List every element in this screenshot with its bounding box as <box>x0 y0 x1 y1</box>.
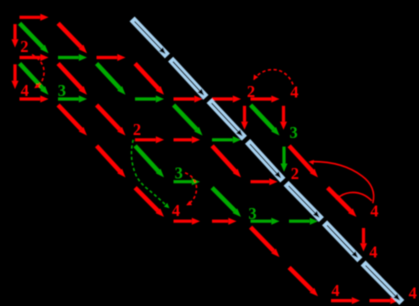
arc from label 2 row4 to label 4 row6 (dashed green) <box>131 140 169 209</box>
svg-text:4: 4 <box>370 201 378 220</box>
wire: red diagonal row7 col7-8 <box>289 267 318 296</box>
wire: red diagonal row4 col5-6 <box>212 146 241 178</box>
arc from label 4 to label 2 row3 (dashed red) <box>253 70 293 85</box>
wire: red arrow row3 col6-7 <box>251 96 280 103</box>
arc from label 4 row6 col9 to diagonal row5 (solid red) <box>336 192 372 200</box>
svg-text:3: 3 <box>248 204 256 223</box>
svg-text:2: 2 <box>247 82 255 101</box>
wire: green diagonal row5 col5-6 <box>212 188 241 217</box>
wire: red arrow row2 col2-3 <box>97 54 126 61</box>
svg-text:4: 4 <box>409 284 417 303</box>
wire: red diagonal row4 col2-3 <box>97 146 126 178</box>
wire: red diagonal row2 col3-4 <box>135 64 164 95</box>
wire: red vertical arrow col6 row3-4 <box>241 106 248 130</box>
svg-text:3: 3 <box>175 164 183 183</box>
svg-text:3: 3 <box>289 123 297 142</box>
wire: red arrow row5 col6-7 <box>251 178 278 185</box>
wire: red arrow row4 col3-4 <box>135 136 164 143</box>
wire: red diagonal row3 col2-3 <box>97 105 126 136</box>
blue diagonal arrow segment 3 <box>209 101 244 139</box>
arc from label 4 row6 col9 to diagonal row4 (solid red) <box>309 160 374 203</box>
wire: green arrow row2 col1-2 <box>58 54 87 61</box>
blue diagonal arrow segment 7 <box>363 263 402 302</box>
blue diagonal arrow segment 4 <box>248 141 283 180</box>
arc from label 3 row5 to label 4 row6 (dashed red) <box>185 173 197 206</box>
svg-text:3: 3 <box>58 81 66 100</box>
wire: green arrow row3 col3-4 <box>135 96 164 103</box>
wire: red diagonal row6 col6-7 <box>251 227 280 257</box>
wire: red arrow row3 col0-1 <box>20 96 49 103</box>
wire: green diagonal row3 col6-7 <box>251 105 280 136</box>
wire: red arrow row8 col9-10 <box>370 297 399 304</box>
wire: red vertical arrow col0 row2-3 <box>12 64 19 89</box>
wire: green diagonal row2 col2-3 <box>97 64 126 95</box>
blue diagonal arrow segment 5 <box>286 183 321 219</box>
svg-text:2: 2 <box>133 120 141 139</box>
wire: red arrow row2 col0-1 <box>20 54 49 61</box>
svg-text:4: 4 <box>369 242 377 261</box>
wire: red arrow row3 col4-5 <box>174 96 203 103</box>
wire: red diagonal row5 col8-9 <box>328 188 357 217</box>
wire: green vertical arrow col7 row4-5 <box>281 147 288 172</box>
wire: green diagonal row3 col4-5 <box>174 105 203 136</box>
wire: red arrow row6 col4-5 <box>174 218 201 225</box>
wire: red vertical arrow col7 row3-4 <box>280 106 287 130</box>
blue diagonal arrow segment 2 <box>171 59 206 97</box>
wire: green diagonal row1 col0-1 <box>20 23 49 53</box>
wire: red diagonal row3 col1-2 <box>58 105 87 136</box>
wire: red diagonal row2 col1-2 <box>58 64 87 95</box>
wire: green arrow row3 col1-2 <box>58 96 87 103</box>
wire: green arrow row5 col4-5 <box>174 178 201 185</box>
svg-text:4: 4 <box>290 83 298 102</box>
wire: green diagonal row2 col0-1 <box>20 64 49 95</box>
wire: red arrow row8 col8-9 <box>331 297 360 304</box>
svg-text:4: 4 <box>21 81 29 100</box>
wire: red arrow row4 col4-5 <box>174 136 201 143</box>
wire: red vertical arrow col9 row6-7 <box>360 228 367 251</box>
wire: red diagonal row1 col1-2 <box>58 23 87 53</box>
wire: green arrow row6 col6-7 <box>251 218 280 225</box>
arc from row2 arrow to label 4 (dashed red) <box>32 55 44 89</box>
svg-text:2: 2 <box>20 37 28 56</box>
wire: red arrow row6 col5-6 <box>212 218 237 225</box>
wire: red arrow row1 col0-1 <box>20 14 49 21</box>
blue diagonal arrow segment 1 <box>132 19 167 56</box>
svg-text:4: 4 <box>331 281 339 300</box>
wire: green diagonal row4 col3-4 <box>135 146 164 178</box>
wire: red vertical arrow col0 row1-2 <box>12 24 19 47</box>
wire: red diagonal row4 col7-8 <box>289 146 318 178</box>
wire: red arrow row3 col5-6 <box>212 96 241 103</box>
svg-text:4: 4 <box>172 201 180 220</box>
wire: green arrow row4 col5-6 <box>212 136 241 143</box>
wire: red diagonal row5 col3-4 <box>135 188 164 217</box>
wire: green arrow row6 col7-8 <box>289 218 318 225</box>
svg-text:2: 2 <box>291 164 299 183</box>
blue diagonal arrow segment 6 <box>325 223 360 260</box>
